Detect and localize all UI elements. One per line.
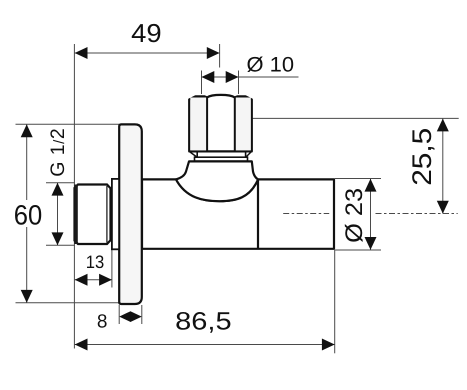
hex nut side facet shading right (235, 98, 251, 151)
dimension 13 left arrow (75, 274, 88, 286)
dimension D10 extension line left (201, 71, 203, 95)
centerline right segment (376, 213, 458, 215)
dimension 49 line (75, 52, 220, 54)
valve body and outlet pipe outline (142, 179, 334, 248)
dimension G1/2 top arrow (52, 183, 64, 196)
dimension D10 extension line right (238, 71, 240, 95)
svg-text:Ø 10: Ø 10 (247, 54, 295, 77)
dimension 86,5 line (75, 344, 335, 346)
dimension 8 right extension line (141, 305, 143, 324)
dimension 25,5 bottom arrow (437, 201, 449, 214)
dimension 49 left arrow (75, 47, 88, 59)
dimension D23 line (370, 179, 372, 250)
dimension G1/2 top extension line (46, 182, 75, 184)
centerline left segment (283, 213, 329, 215)
dimension 60 bottom arrow (21, 290, 33, 303)
dimension 60 line upper segment (26, 124, 28, 200)
dimension G1/2 line (57, 183, 59, 245)
svg-text:49: 49 (131, 18, 162, 48)
dimension G1/2 bottom arrow (52, 232, 64, 245)
thread end face (thick left edge) (74, 185, 78, 245)
hex nut handle outline (189, 95, 252, 152)
dimension 60 top arrow (21, 124, 33, 137)
dimension 13 right extension line (111, 247, 113, 288)
svg-text:13: 13 (86, 252, 105, 272)
dimension D23 bottom arrow (365, 237, 377, 250)
bonnet (flared neck above body) (176, 161, 258, 201)
svg-text:Ø 23: Ø 23 (341, 188, 368, 243)
dimension 8 left extension line (118, 305, 120, 324)
dimension 60 line lower segment (26, 227, 28, 303)
dimension D23 top arrow (365, 179, 377, 192)
dimension G1/2 bottom extension line (46, 244, 75, 246)
svg-text:86,5: 86,5 (175, 308, 232, 336)
hex nut side facet shading left (190, 98, 207, 151)
flange ring between thread and plate (112, 179, 119, 249)
dimension 60 bottom extension line (16, 302, 121, 304)
svg-text:60: 60 (14, 200, 43, 231)
collar under hex (narrow band) (197, 151, 245, 157)
dimension D10 right arrow (226, 71, 239, 83)
svg-text:25,5: 25,5 (407, 128, 437, 186)
svg-text:8: 8 (97, 312, 108, 333)
hex bottom chamfer right (246, 152, 251, 157)
extension line right of 49 dim (valve axis) (219, 44, 221, 68)
wall thread G1/2 block (75, 185, 111, 245)
hex nut right facet line (234, 97, 236, 151)
dimension 49 right arrow (207, 47, 220, 59)
dimension D23 bottom extension line (335, 249, 381, 251)
washer under hex (wide thin band) (195, 157, 248, 161)
dimension 13 right arrow (99, 274, 112, 286)
dimension D10 left arrow (202, 71, 215, 83)
dimension 8 right arrow (130, 311, 141, 322)
dimension 86,5 right extension line (334, 250, 336, 353)
dimension 13 line (75, 279, 112, 281)
dimension 25,5 top extension line (252, 117, 458, 119)
dimension 8 left arrow (119, 311, 130, 322)
dimension 86,5 left arrow (75, 339, 88, 351)
dimension 25,5 line (442, 119, 444, 214)
thread chamfer inner line at right (106, 186, 108, 243)
svg-text:G 1/2: G 1/2 (47, 128, 69, 177)
body/pipe junction line (257, 179, 259, 248)
dimension D23 top extension line (335, 178, 381, 180)
wall plate (rosette) (119, 124, 142, 304)
hex nut left facet line (206, 97, 208, 151)
dimension D10 line with leader (202, 76, 299, 78)
hex bottom chamfer left (190, 152, 197, 157)
datum extension line (wall face, left of thread) (73, 44, 75, 349)
dimension 86,5 right arrow (322, 339, 335, 351)
dimension 60 top extension line (16, 123, 120, 125)
dimension 25,5 top arrow (437, 119, 449, 132)
